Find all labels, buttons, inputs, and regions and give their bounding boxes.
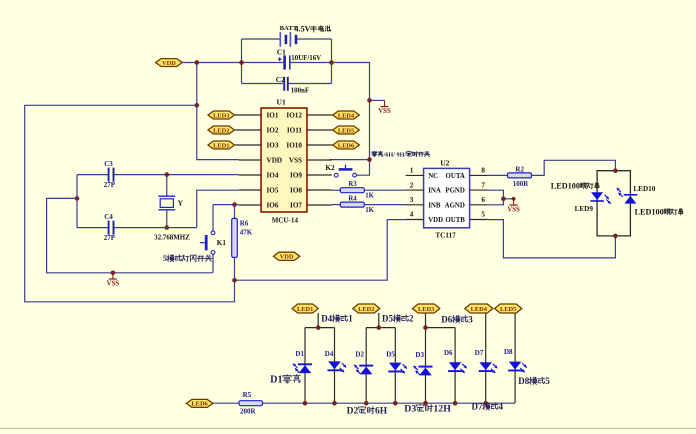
- svg-text:IO3: IO3: [267, 142, 279, 150]
- svg-text:6H: 6H: [375, 406, 388, 416]
- port VDD middle: [273, 252, 299, 260]
- wire VDD outer loop: [25, 105, 235, 301]
- resistor R4: [340, 202, 364, 207]
- svg-text:100nF: 100nF: [291, 87, 309, 94]
- svg-text:R5: R5: [243, 391, 252, 399]
- LED LED9: [591, 192, 603, 200]
- svg-text:R6: R6: [240, 219, 249, 227]
- svg-text:TC117: TC117: [435, 232, 456, 240]
- svg-text:VSS: VSS: [507, 206, 520, 213]
- svg-text:LED100: LED100: [551, 182, 580, 191]
- wire battery loop right: [331, 39, 333, 84]
- wire battery branch: [242, 38, 281, 40]
- svg-text:IO10: IO10: [286, 142, 302, 150]
- svg-text:VDD: VDD: [267, 157, 283, 165]
- svg-text:LED5: LED5: [500, 306, 516, 313]
- wire R4 to U2 pin3: [364, 204, 405, 206]
- svg-text:D2: D2: [355, 351, 364, 359]
- wire VDD branch to U2 pin4: [235, 220, 406, 281]
- svg-text:LED6: LED6: [191, 401, 208, 408]
- pin stubs U1 right: [307, 114, 333, 116]
- svg-text:5: 5: [545, 376, 550, 386]
- port LED2: [208, 126, 235, 134]
- wire VSS pin stub to rail: [330, 159, 370, 161]
- svg-text:OUTB: OUTB: [445, 217, 465, 224]
- op-amp U2 TC117: [424, 168, 470, 227]
- LED D3: [419, 366, 433, 368]
- svg-text:LED4: LED4: [338, 112, 355, 119]
- resistor R3: [340, 188, 364, 193]
- node VDD-C1 junction: [239, 60, 244, 65]
- port LED4: [333, 111, 360, 119]
- bottom screen edge: [0, 428, 696, 429]
- svg-text:VSS: VSS: [378, 108, 391, 115]
- node VSS rail symbol: [111, 271, 116, 276]
- wire VDD drop to U1 VDD pin: [197, 63, 239, 160]
- svg-text:100R: 100R: [513, 180, 530, 188]
- svg-text:C2: C2: [276, 75, 285, 84]
- pin stubs U2: [406, 174, 424, 176]
- svg-text:2: 2: [409, 314, 414, 324]
- node VDD outer loop tap: [195, 103, 200, 108]
- wire C3/C4 ground vertical: [76, 175, 78, 228]
- ground VSS top-right: [384, 100, 386, 106]
- node VSS pin junction: [367, 157, 372, 162]
- svg-text:LED1: LED1: [213, 142, 229, 149]
- svg-text:4: 4: [410, 211, 414, 219]
- svg-text:D2: D2: [347, 406, 359, 416]
- wire IO5 to C4: [197, 190, 239, 227]
- svg-text:R3: R3: [348, 181, 357, 188]
- node VSS-battery junction: [329, 60, 334, 65]
- wire crystal top: [166, 175, 168, 197]
- svg-text:27P: 27P: [104, 181, 116, 189]
- switch K1: [211, 231, 215, 235]
- svg-text:Y: Y: [178, 198, 184, 207]
- svg-text:LED6: LED6: [338, 142, 355, 149]
- node R6 top junction: [232, 202, 237, 207]
- svg-text:D3: D3: [415, 351, 424, 359]
- svg-text:R4: R4: [348, 195, 357, 202]
- port VDD top: [156, 59, 183, 67]
- svg-text:IO11: IO11: [287, 127, 303, 135]
- svg-text:/6H/ 9H/: /6H/ 9H/: [383, 151, 407, 158]
- svg-text:IO4: IO4: [267, 172, 279, 180]
- label mode text: [372, 151, 377, 157]
- svg-text:LED100: LED100: [635, 208, 664, 217]
- port LED3: [208, 111, 235, 119]
- LED D5: [389, 363, 402, 371]
- svg-text:D8: D8: [518, 376, 529, 386]
- wire IO6 to K1: [212, 205, 214, 231]
- capacitor C3: [108, 168, 110, 182]
- svg-text:32.768MHZ: 32.768MHZ: [154, 234, 190, 241]
- svg-text:VDD: VDD: [280, 254, 294, 261]
- node crystal top junction: [165, 172, 170, 177]
- svg-text:LED2: LED2: [213, 127, 229, 134]
- port LED2 bottom: [353, 304, 380, 313]
- svg-text:VSS: VSS: [289, 157, 302, 165]
- node AGND junction: [501, 197, 506, 202]
- node LED block bottom: [613, 234, 618, 239]
- wire VDD rail top: [182, 62, 283, 64]
- crystal Y: [160, 199, 173, 208]
- pin stubs U1 left: [235, 114, 261, 116]
- wire OUTA to R2: [488, 174, 508, 176]
- svg-text:K2: K2: [325, 164, 335, 172]
- svg-text:D5: D5: [382, 314, 393, 324]
- svg-text:R2: R2: [515, 165, 524, 173]
- resistor R5: [239, 401, 263, 406]
- LED D2: [359, 365, 373, 367]
- svg-text:47K: 47K: [240, 229, 253, 237]
- svg-text:C4: C4: [104, 213, 113, 221]
- wire IO6 line: [213, 204, 239, 206]
- svg-text:5: 5: [163, 254, 167, 263]
- node LED block top: [613, 168, 618, 173]
- port LED5: [333, 126, 360, 134]
- node VDD rail junction: [195, 60, 200, 65]
- wire R3 to U2 pin2: [364, 189, 405, 191]
- wire bottom rail: [263, 402, 516, 404]
- wire D3-D6 pair: [425, 328, 427, 404]
- port LED4 bottom: [465, 304, 493, 313]
- svg-text:LED9: LED9: [575, 205, 594, 213]
- svg-text:MCU-14: MCU-14: [272, 216, 299, 224]
- capacitor C1: [283, 55, 286, 69]
- svg-text:IO1: IO1: [267, 112, 279, 120]
- svg-text:U2: U2: [440, 159, 449, 168]
- port LED1: [208, 141, 235, 149]
- wire IO7 to R4: [332, 204, 341, 206]
- resistor R2: [508, 173, 532, 178]
- svg-text:D7: D7: [472, 402, 483, 412]
- svg-text:4: 4: [499, 402, 504, 412]
- svg-text:10UF/16V: 10UF/16V: [291, 55, 321, 62]
- svg-text:D6: D6: [441, 314, 452, 324]
- svg-text:LED3: LED3: [418, 306, 434, 313]
- svg-text:IO6: IO6: [267, 202, 279, 210]
- wire D7 column: [485, 313, 487, 403]
- svg-text:8: 8: [481, 167, 485, 175]
- wire IO8 to R3: [332, 189, 341, 191]
- svg-text:IO9: IO9: [290, 172, 302, 180]
- node R6 bottom junction: [232, 278, 237, 283]
- svg-text:VDD: VDD: [428, 217, 443, 224]
- LED D8: [509, 362, 522, 370]
- svg-text:2: 2: [410, 181, 414, 189]
- svg-text:D6: D6: [444, 349, 453, 357]
- wire K1 bottom to VSS rail: [212, 254, 214, 272]
- svg-text:LED5: LED5: [338, 127, 354, 134]
- ground VSS bottom-left: [112, 273, 114, 279]
- node rail junctions: [303, 401, 308, 406]
- LED D4: [328, 361, 341, 369]
- svg-text:200R: 200R: [240, 408, 257, 416]
- svg-text:D3: D3: [404, 404, 416, 415]
- op-amp U1 MCU-14: [261, 108, 307, 212]
- svg-text:OUTA: OUTA: [445, 173, 464, 180]
- wire IO4 line: [77, 174, 108, 176]
- node VSS symbol tap: [367, 98, 372, 103]
- svg-text:D5: D5: [386, 351, 395, 359]
- wire PGND AGND loop: [488, 190, 504, 205]
- wire VSS rail down to K2: [357, 160, 370, 176]
- wire D2-D5 pair: [365, 328, 367, 404]
- LED string block frame: [597, 171, 615, 236]
- svg-text:LED1: LED1: [297, 306, 313, 313]
- svg-text:6: 6: [481, 196, 485, 204]
- svg-text:D7: D7: [475, 349, 484, 357]
- svg-text:D8: D8: [504, 348, 513, 356]
- wire ground tap to VSS rail: [47, 198, 213, 272]
- capacitor C2: [283, 77, 285, 91]
- svg-text:LED3: LED3: [213, 112, 229, 119]
- node crystal bottom junction: [165, 225, 170, 230]
- svg-text:VDD: VDD: [162, 60, 176, 67]
- svg-text:D1: D1: [295, 350, 304, 358]
- LED D1: [298, 363, 312, 365]
- svg-text:U1: U1: [277, 98, 286, 107]
- svg-text:K1: K1: [217, 239, 227, 247]
- wire battery loop left: [241, 39, 243, 84]
- svg-text:IO2: IO2: [267, 127, 279, 135]
- svg-text:LED10: LED10: [633, 185, 655, 193]
- svg-text:D4: D4: [321, 314, 332, 324]
- capacitor C4: [108, 221, 110, 235]
- svg-text:INA: INA: [428, 188, 441, 195]
- svg-text:D4: D4: [325, 350, 334, 358]
- svg-text:3: 3: [468, 314, 473, 324]
- wire D8 column: [514, 313, 516, 403]
- svg-text:3: 3: [410, 196, 414, 204]
- svg-text:VSS: VSS: [107, 280, 120, 287]
- ground VSS mid: [513, 199, 515, 205]
- svg-text:1K: 1K: [365, 193, 374, 200]
- wire VSS from battery loop to U1: [332, 63, 370, 160]
- port LED5 bottom: [495, 304, 522, 313]
- svg-text:LED2: LED2: [358, 306, 374, 313]
- svg-text:NC: NC: [428, 173, 438, 180]
- svg-text:AGND: AGND: [445, 202, 465, 209]
- svg-text:C1: C1: [277, 48, 286, 57]
- switch K2: [334, 173, 338, 177]
- port LED1 bottom: [292, 304, 318, 313]
- svg-text:IO12: IO12: [286, 112, 302, 120]
- svg-text:INB: INB: [428, 202, 441, 209]
- wire OUTB to LED block: [488, 220, 616, 258]
- wire C4 line: [77, 227, 108, 229]
- LED D6: [449, 362, 462, 370]
- svg-text:1: 1: [348, 314, 353, 324]
- svg-text:PGND: PGND: [445, 188, 465, 195]
- svg-text:4.5V: 4.5V: [295, 25, 311, 34]
- LED LED10: [624, 194, 638, 196]
- svg-text:12H: 12H: [433, 404, 451, 415]
- node ground tap: [75, 196, 80, 201]
- svg-text:1K: 1K: [365, 207, 374, 214]
- port LED6 bottom: [186, 399, 212, 407]
- svg-text:1: 1: [410, 167, 414, 175]
- svg-text:5: 5: [481, 211, 485, 219]
- wire D1-D4 pair: [304, 328, 306, 404]
- svg-text:7: 7: [481, 181, 485, 189]
- wire LED6 to R5: [213, 402, 239, 404]
- svg-text:IO8: IO8: [290, 187, 302, 195]
- wire C2 branch: [242, 83, 284, 85]
- svg-text:27P: 27P: [104, 234, 116, 242]
- resistor R6: [232, 218, 238, 257]
- LED D7: [479, 362, 492, 370]
- wire crystal bottom: [166, 210, 168, 228]
- svg-text:IO5: IO5: [267, 187, 279, 195]
- battery BATT: [279, 32, 281, 47]
- svg-text:LED4: LED4: [471, 306, 488, 313]
- port LED3 bottom: [413, 304, 440, 313]
- svg-text:C3: C3: [104, 160, 113, 168]
- wire R2 to LED block: [532, 160, 616, 175]
- svg-text:IO7: IO7: [290, 202, 302, 210]
- port LED6: [333, 141, 360, 149]
- svg-text:D1: D1: [270, 375, 282, 386]
